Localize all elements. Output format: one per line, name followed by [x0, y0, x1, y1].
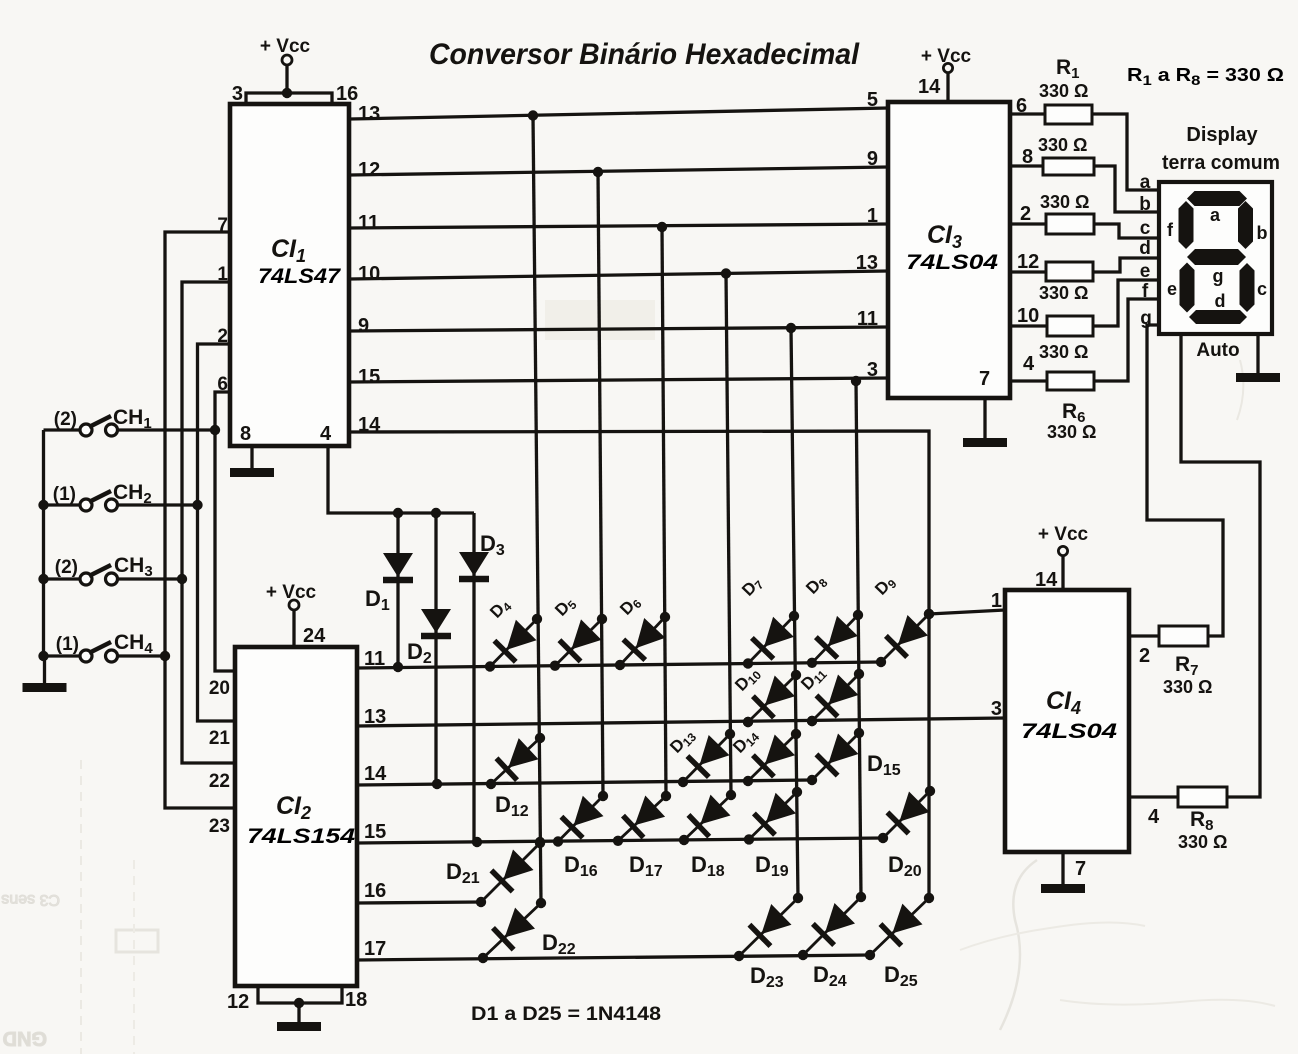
wire column F (from pin15 net) [856, 381, 861, 897]
svg-text:c: c [1257, 279, 1267, 299]
diode D16 [558, 796, 603, 842]
wire net CI1 pin 15 to CI3 pin 3 [350, 378, 888, 382]
svg-text:21: 21 [209, 728, 231, 749]
node CI4 pin1 junction [924, 609, 934, 619]
label D9 [871, 572, 900, 600]
wire CI1 pin 4 to diode bank [328, 446, 474, 513]
diode D4 [490, 619, 537, 667]
diode D25 [870, 898, 929, 955]
diode D6 [620, 617, 665, 665]
svg-text:14: 14 [364, 763, 387, 785]
diode D10 [748, 675, 796, 722]
svg-text:12: 12 [1017, 251, 1039, 273]
svg-text:D1 a D25 = 1N4148: D1 a D25 = 1N4148 [471, 1004, 661, 1025]
svg-text:Display: Display [1186, 124, 1258, 146]
svg-text:d: d [1139, 238, 1151, 259]
diode D9 [881, 614, 929, 662]
wire column B (from pin12 net) [598, 172, 603, 796]
svg-text:74LS47: 74LS47 [258, 265, 341, 288]
svg-text:1: 1 [217, 264, 228, 285]
svg-text:3: 3 [867, 359, 878, 381]
node column tap 3 [657, 222, 667, 232]
svg-text:4: 4 [1023, 353, 1035, 375]
diode D12 [491, 738, 540, 784]
wire CI3 pin 2 to R3 [1010, 222, 1046, 225]
Vcc supply CI1 [282, 55, 292, 65]
wire pin2 CI1 to pin21 CI2 [198, 344, 236, 721]
svg-text:GND: GND [3, 1027, 47, 1049]
ground below CI4 pin 7 [1061, 852, 1064, 884]
Vcc supply CI2 [289, 600, 299, 610]
wire net CI1 pin 13 to CI3 pin 5 [350, 108, 888, 119]
IC CI2 74LS154 body [235, 647, 357, 986]
svg-text:12: 12 [358, 159, 380, 181]
node row13 taps [743, 717, 753, 727]
svg-text:330 Ω: 330 Ω [1047, 422, 1096, 442]
svg-text:330 Ω: 330 Ω [1039, 283, 1088, 303]
resistor R2 [1043, 158, 1094, 175]
diode D19 [749, 792, 797, 839]
svg-text:16: 16 [364, 880, 386, 902]
svg-text:8: 8 [1022, 146, 1033, 168]
diode D22 [483, 903, 541, 958]
wire row pin14 CI2 [357, 780, 812, 785]
svg-text:7: 7 [217, 215, 228, 236]
svg-text:a: a [1210, 205, 1221, 225]
wire pin7 CI1 to pin23 CI2 [165, 232, 235, 808]
wire row pin16 CI2 [357, 902, 481, 903]
wire CI3 pin 12 to R4 [1010, 270, 1046, 273]
label D8 [802, 571, 831, 599]
op-amp IC CI1 74LS47 body [230, 104, 349, 446]
display box [1159, 182, 1272, 334]
svg-text:e: e [1167, 279, 1177, 299]
input bus wire [42, 430, 45, 657]
svg-text:5: 5 [867, 89, 878, 111]
wire R1 to display a [1092, 114, 1159, 190]
svg-text:23: 23 [209, 816, 230, 837]
node bus junctions [38, 500, 48, 510]
svg-text:g: g [1213, 266, 1224, 286]
svg-text:b: b [1139, 194, 1151, 215]
wire row pin11 CI2 [357, 662, 881, 668]
diode D11 [812, 674, 859, 721]
svg-text:14: 14 [918, 76, 941, 98]
resistor R6 [1047, 372, 1094, 390]
resistor R1 [1045, 105, 1092, 124]
label D6 [616, 592, 645, 620]
wire column C (from pin11 net) [662, 227, 666, 796]
ground below CI3 pin 7 [983, 398, 986, 438]
svg-text:11: 11 [358, 212, 379, 234]
wire pin1 CI1 to pin22 CI2 [182, 282, 235, 763]
wire R6 to display f [1094, 299, 1159, 381]
diode D18 [684, 795, 731, 840]
svg-text:24: 24 [303, 625, 326, 647]
ground bracket CI2 pins 12/18 [258, 986, 342, 1003]
ground below display [1256, 334, 1259, 373]
display segment g [1187, 249, 1246, 265]
wire row pin15 CI2 [357, 838, 883, 843]
wire CI4 pin 2 to R7 [1129, 634, 1159, 637]
diode D3 [472, 513, 475, 842]
switch CH3 [44, 577, 81, 580]
svg-text:10: 10 [1017, 305, 1039, 327]
svg-text:+ Vcc: + Vcc [1038, 524, 1089, 545]
display segment c [1240, 263, 1255, 312]
diode D7 [748, 616, 794, 664]
diode D21 [481, 843, 540, 902]
Vcc supply CI3 [943, 63, 952, 72]
wire CI3 pin 10 to R5 [1010, 324, 1047, 327]
diode D17 [618, 796, 666, 841]
node column tap 4 [721, 268, 731, 278]
wire net CI1 pin 9 to CI3 pin 11 [350, 327, 888, 331]
svg-text:Auto: Auto [1196, 340, 1239, 361]
wire column E (from pin9 net) [791, 328, 798, 898]
wire CI3 pin 4 to R6 [1010, 379, 1047, 382]
Vcc supply CI4 [1058, 546, 1067, 555]
resistor R8 [1178, 787, 1227, 807]
svg-text:f: f [1167, 220, 1174, 240]
display segment e [1180, 263, 1195, 313]
diode D2 [434, 513, 437, 784]
label D5 [551, 593, 580, 621]
svg-text:330 Ω: 330 Ω [1039, 342, 1088, 362]
label D14 [729, 725, 762, 758]
svg-text:20: 20 [209, 678, 230, 699]
svg-text:2: 2 [1139, 645, 1150, 667]
diode D1 [396, 513, 399, 667]
svg-text:14: 14 [358, 414, 381, 436]
svg-text:6: 6 [217, 374, 228, 395]
svg-text:C3 sens: C3 sens [1, 891, 60, 908]
svg-text:(1): (1) [53, 484, 76, 505]
diode D13 [683, 734, 730, 782]
svg-text:12: 12 [227, 991, 249, 1013]
svg-text:1: 1 [991, 590, 1002, 612]
svg-text:17: 17 [364, 938, 386, 960]
svg-text:f: f [1142, 281, 1149, 302]
node D1 tap [393, 508, 403, 518]
wire column D (from pin10 net) [726, 274, 731, 796]
svg-text:+ Vcc: + Vcc [266, 582, 317, 603]
svg-text:7: 7 [979, 368, 990, 390]
svg-text:10: 10 [358, 263, 380, 285]
diode D14 [748, 734, 796, 781]
svg-text:(2): (2) [54, 409, 77, 430]
svg-text:11: 11 [857, 308, 878, 330]
wire R8 to display common [1181, 334, 1260, 797]
diode D20 [883, 791, 930, 838]
diode D23 [739, 898, 798, 956]
wire column A (from pin13 net) [533, 116, 541, 904]
svg-text:15: 15 [364, 821, 386, 843]
wire row pin17 CI2 [357, 955, 870, 960]
display segment a [1187, 191, 1247, 206]
wire R7 to display g [1147, 325, 1223, 636]
svg-text:13: 13 [856, 252, 878, 274]
diode D24 [803, 897, 861, 955]
svg-text:2: 2 [1020, 203, 1031, 225]
svg-text:330 Ω: 330 Ω [1040, 192, 1089, 212]
svg-text:15: 15 [358, 366, 380, 388]
svg-text:330 Ω: 330 Ω [1178, 832, 1227, 852]
resistor R5 [1047, 316, 1093, 336]
svg-text:d: d [1215, 291, 1226, 311]
switch CH4 [44, 654, 81, 657]
svg-text:9: 9 [358, 315, 369, 337]
node column tap 2 [593, 167, 603, 177]
diode D8 [812, 615, 858, 663]
label D13 [666, 725, 699, 758]
node column tap 5 [786, 323, 796, 333]
svg-text:(2): (2) [55, 557, 78, 578]
label D11 [797, 662, 830, 695]
IC CI3 74LS04 body [888, 102, 1010, 398]
svg-text:Conversor Binário Hexadecimal: Conversor Binário Hexadecimal [429, 38, 860, 71]
wire CI4 pin 4 to R8 [1129, 795, 1178, 798]
svg-text:74LS04: 74LS04 [906, 251, 998, 274]
display segment d [1189, 310, 1247, 324]
svg-text:8: 8 [240, 423, 251, 445]
label D4 [486, 595, 515, 623]
svg-text:4: 4 [320, 423, 332, 445]
diode D5 [555, 619, 602, 666]
resistor R3 [1046, 214, 1094, 234]
svg-text:+ Vcc: + Vcc [260, 36, 311, 57]
wire net CI1 pin 10 to CI3 pin 13 [350, 271, 888, 279]
wire R5 to display e [1093, 280, 1159, 326]
svg-text:6: 6 [1016, 95, 1027, 117]
label D10 [731, 663, 764, 696]
svg-text:g: g [1140, 308, 1152, 329]
node D2 tap [431, 508, 441, 518]
resistor R4 [1046, 262, 1093, 281]
wire pin6 CI1 to pin20 CI2 [215, 392, 235, 671]
svg-text:330 Ω: 330 Ω [1038, 135, 1087, 155]
resistor R7 [1159, 626, 1208, 646]
svg-text:3: 3 [991, 698, 1002, 720]
paper bleed-through ghosts (decorative) [1, 285, 1275, 1054]
svg-text:+ Vcc: + Vcc [921, 46, 972, 67]
ground below CI1 pin 8 [250, 446, 253, 468]
switch CH1 [44, 428, 81, 431]
node column tap 1 [528, 110, 538, 120]
svg-text:74LS154: 74LS154 [247, 825, 355, 848]
wire R2 to display b [1094, 166, 1159, 212]
svg-text:a: a [1140, 172, 1151, 193]
label D7 [738, 573, 767, 601]
svg-text:4: 4 [1148, 806, 1160, 828]
wire R3 to display c [1094, 224, 1159, 238]
svg-text:e: e [1140, 261, 1151, 282]
wire net CI1 pin 11 to CI3 pin 1 [350, 224, 888, 228]
node column tap 6 [851, 376, 861, 386]
wire net CI1 pin 12 to CI3 pin 9 [350, 167, 888, 175]
svg-text:b: b [1257, 223, 1268, 243]
svg-text:18: 18 [345, 989, 367, 1011]
svg-text:terra comum: terra comum [1162, 152, 1280, 174]
diode D15 [812, 733, 859, 780]
svg-text:74LS04: 74LS04 [1021, 720, 1117, 743]
wire row pin13 CI2 to CI4 pin3 [357, 718, 1005, 726]
node row15 colA junction [535, 837, 545, 847]
svg-text:330 Ω: 330 Ω [1163, 677, 1212, 697]
svg-text:1: 1 [867, 205, 878, 227]
svg-text:(1): (1) [56, 634, 79, 655]
wire net CI1 pin 14 (row to column G) [350, 431, 929, 898]
display segment b [1238, 201, 1253, 249]
ground below switches [43, 656, 46, 683]
svg-text:13: 13 [358, 103, 380, 125]
svg-text:7: 7 [1075, 858, 1086, 880]
wire R4 to display d [1093, 258, 1159, 272]
display segment f [1179, 201, 1194, 249]
wire CI4 pin 1 [929, 610, 1005, 614]
svg-text:22: 22 [209, 771, 230, 792]
wire CI3 pin 6 to R1 [1010, 112, 1045, 115]
wire CI3 pin 8 to R2 [1010, 164, 1043, 167]
svg-text:c: c [1140, 218, 1151, 239]
svg-text:9: 9 [867, 148, 878, 170]
switch CH2 [44, 503, 81, 506]
IC CI4 74LS04 body [1005, 590, 1129, 852]
svg-text:2: 2 [217, 326, 228, 347]
svg-text:330 Ω: 330 Ω [1039, 81, 1088, 101]
node CH junctions [210, 425, 220, 435]
